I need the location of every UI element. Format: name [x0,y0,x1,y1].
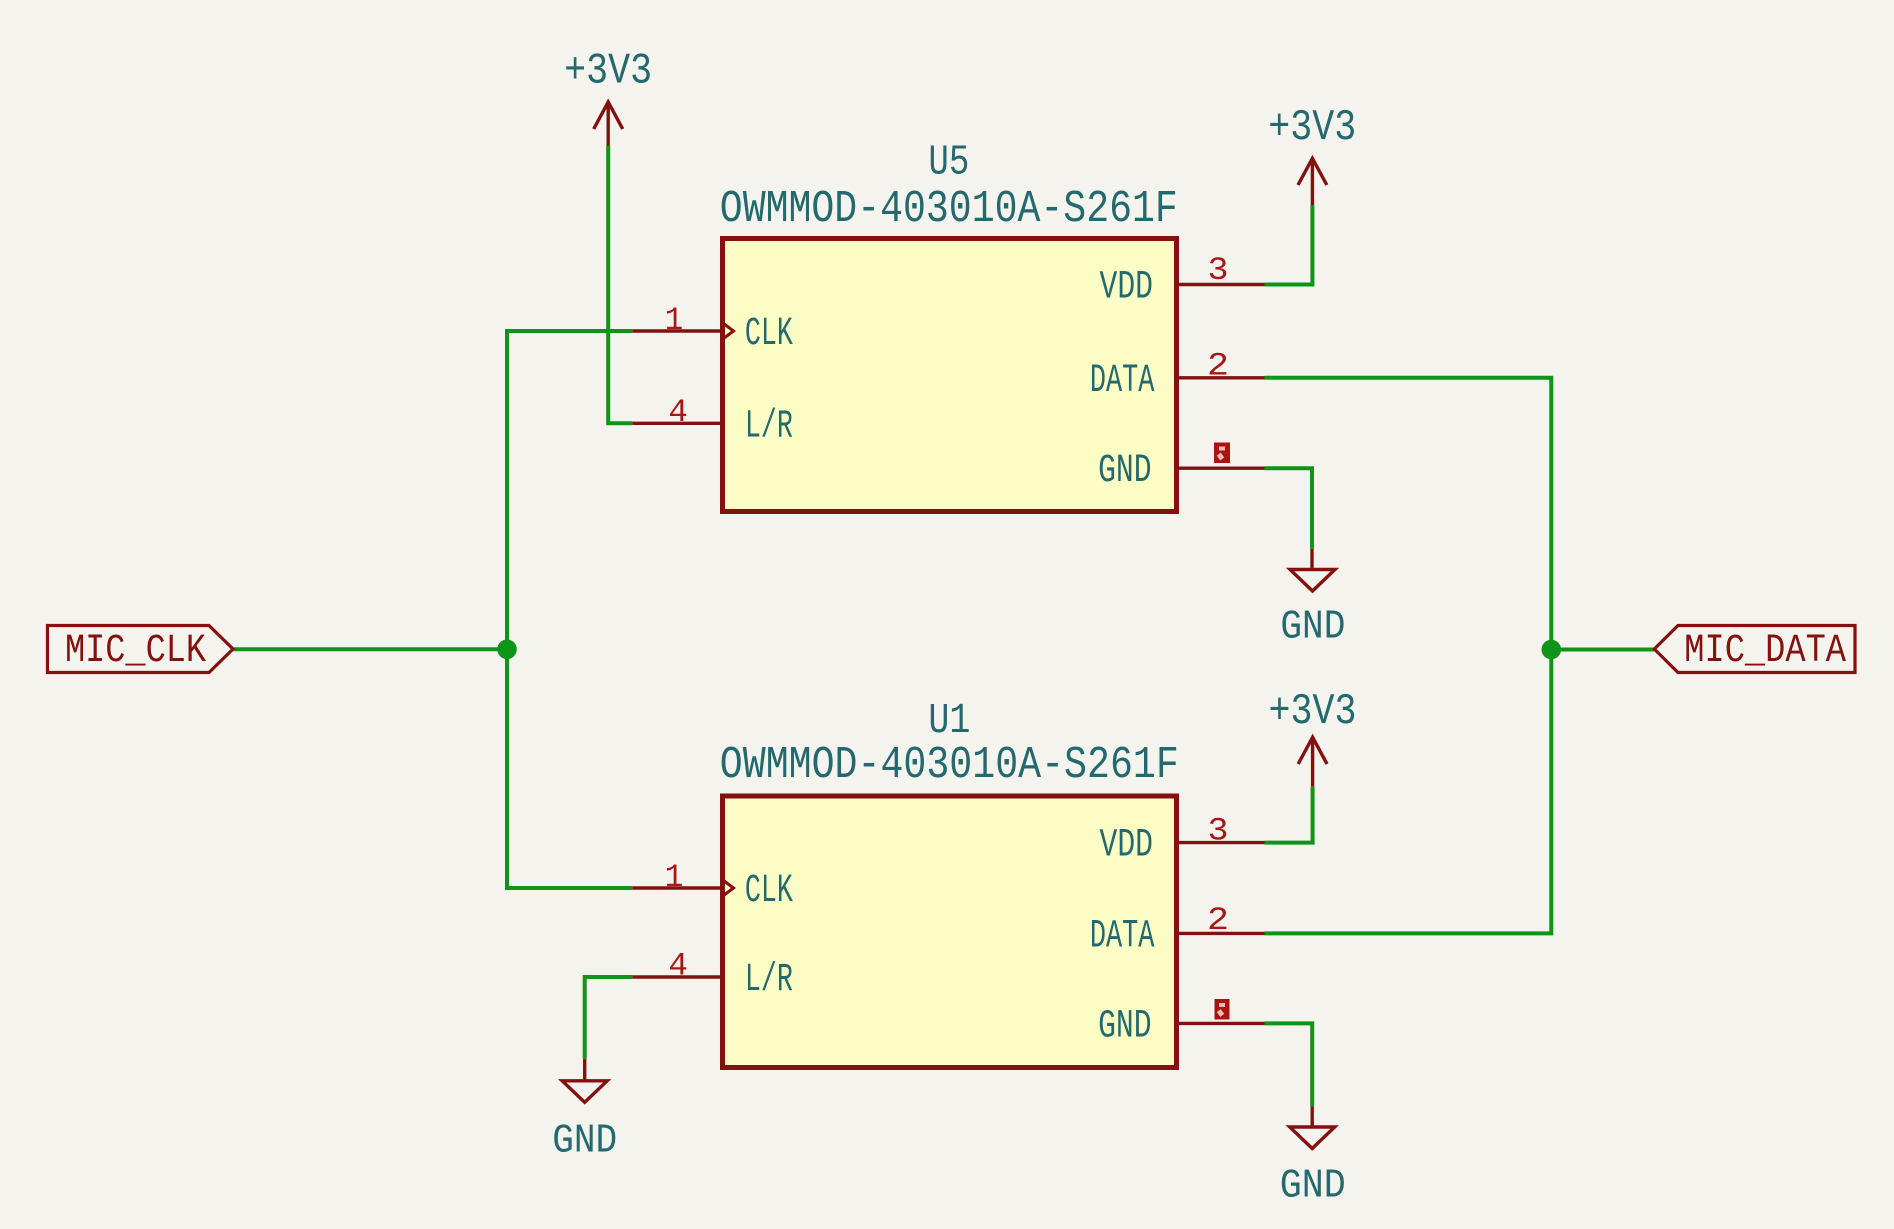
U5 pin 2 DATA line [1177,376,1265,379]
svg-text:GND: GND [1280,605,1345,651]
svg-text:GND: GND [1098,1004,1152,1049]
wire U5 GND pin to ground [1265,468,1313,549]
svg-text:4: 4 [668,948,688,985]
U1 pin numbers 5 6 overlapped [1215,999,1230,1020]
wire U5 VDD to +3V3 [1265,205,1313,285]
svg-text:CLK: CLK [745,869,793,914]
svg-text:GND: GND [1280,1164,1346,1210]
global label MIC_CLK outline [48,626,234,673]
U1 pin 1 clock chevron [724,881,734,896]
svg-text:L/R: L/R [745,958,793,1003]
wire junction to MIC_DATA [1551,648,1654,652]
component U5 body [723,239,1177,512]
svg-text:+3V3: +3V3 [1268,103,1356,153]
svg-text:VDD: VDD [1100,824,1154,869]
svg-text:3: 3 [1208,252,1229,289]
ground symbol (U1 GND) [1290,1106,1335,1148]
svg-text:MIC_CLK: MIC_CLK [65,629,206,674]
svg-text:2: 2 [1207,347,1229,384]
svg-text:4: 4 [668,394,688,431]
component U1 body [723,796,1177,1068]
svg-text:L/R: L/R [745,404,793,449]
svg-text:U5: U5 [928,138,969,187]
U1 pin 2 DATA line [1177,932,1265,935]
U5 pin 3 VDD line [1177,283,1265,286]
svg-text:+3V3: +3V3 [1269,687,1357,737]
svg-text:CLK: CLK [745,312,793,357]
wire MIC_CLK to junction [233,647,507,651]
junction DATA node [1542,640,1562,660]
svg-text:1: 1 [665,859,684,896]
svg-text:1: 1 [665,302,684,339]
wire DATA bus U5/U1 [1265,378,1552,934]
wire CLK trunk (U5 CLK / U1 CLK) [507,331,632,888]
power +3V3 symbol (U5 VDD) [1298,158,1327,205]
svg-text:GND: GND [552,1119,617,1165]
ground symbol (U5 GND) [1290,549,1335,591]
svg-text:DATA: DATA [1090,914,1155,959]
svg-text:GND: GND [1098,449,1152,494]
svg-text:3: 3 [1208,812,1229,849]
U5 pin 4 L/R line [632,422,722,425]
svg-text:2: 2 [1207,902,1229,939]
U1 pin 3 VDD line [1177,841,1265,844]
svg-text:VDD: VDD [1100,266,1154,311]
U5 pin 5/6 GND line [1177,467,1265,470]
wire U1 VDD to +3V3 [1265,787,1313,843]
svg-text:MIC_DATA: MIC_DATA [1684,629,1846,674]
wire +3V3 to U5 L/R [608,146,632,424]
power +3V3 symbol (U1 VDD) [1298,737,1327,787]
svg-text:OWMMOD-403010A-S261F: OWMMOD-403010A-S261F [720,184,1178,235]
global label MIC_DATA outline [1654,626,1855,673]
svg-text:OWMMOD-403010A-S261F: OWMMOD-403010A-S261F [720,740,1179,791]
svg-text:DATA: DATA [1090,359,1155,404]
svg-text:+3V3: +3V3 [564,47,652,97]
U5 pin 1 clock chevron [724,324,734,339]
svg-text:U1: U1 [928,696,970,745]
U1 pin 1 CLK line [632,886,722,889]
wire U1 GND pin to ground [1265,1023,1313,1106]
U1 pin 5/6 GND line [1177,1022,1265,1025]
junction CLK node [497,640,517,660]
power +3V3 symbol (left, U5 L/R) [594,102,623,146]
U1 pin 4 L/R line [632,975,722,978]
U5 pin 1 CLK line [632,329,722,332]
wire U1 L/R to ground [585,977,633,1059]
ground symbol (U1 L/R) [562,1059,607,1103]
U5 pin numbers 5 6 overlapped [1214,443,1230,464]
